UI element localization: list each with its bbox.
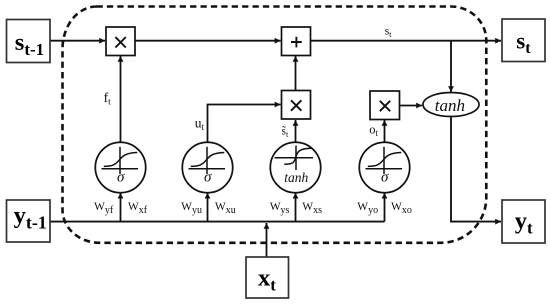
wire input to sigma2 [207, 193, 209, 222]
wire s(t-1) to multiply M1 [50, 40, 105, 42]
multiply M3 [370, 91, 400, 120]
svg-text:σ: σ [381, 170, 389, 186]
sigma circle 3 (output gate) [359, 142, 409, 192]
box s(t) [502, 19, 545, 62]
tanh ellipse (output activation) [423, 93, 479, 117]
sigma circle 1 (forget gate) [95, 142, 145, 192]
wire M3 to tanh ellipse [400, 105, 423, 107]
svg-text:tanh: tanh [435, 96, 465, 115]
multiply M1 [106, 27, 135, 56]
wire x(t) up into input line [266, 223, 268, 257]
plus P1 [282, 27, 311, 56]
sigma circle 2 (update gate) [182, 142, 232, 192]
multiply M2 [282, 91, 311, 120]
box x(t) [246, 257, 289, 298]
box y(t) [502, 200, 545, 243]
wire branch down to tanh ellipse [450, 41, 452, 92]
svg-text:tanh: tanh [284, 170, 308, 185]
wire input to tanh circle [295, 193, 297, 222]
wire M1 to plus [135, 40, 281, 42]
wire sigma2 to M2 (u gate) [208, 105, 281, 143]
wire tanh circle to M2 [295, 120, 297, 142]
wire M2 to plus [295, 56, 297, 91]
wire y(t-1) input line [50, 221, 385, 223]
wire tanh ellipse down and right to y(t) [451, 117, 501, 222]
dashed cell boundary [63, 7, 487, 243]
wire input to sigma3 [384, 193, 386, 222]
box y(t-1) [7, 200, 51, 242]
box s(t-1) [7, 20, 51, 63]
wire plus to s(t) box [311, 40, 502, 42]
wire sigma1 to M1 (f gate) [120, 56, 122, 142]
wire input to sigma1 [120, 193, 122, 222]
wire sigma3 to M3 (o gate) [384, 120, 386, 142]
svg-text:σ: σ [204, 170, 212, 186]
tanh circle (candidate) [270, 142, 320, 192]
svg-text:σ: σ [117, 170, 125, 186]
